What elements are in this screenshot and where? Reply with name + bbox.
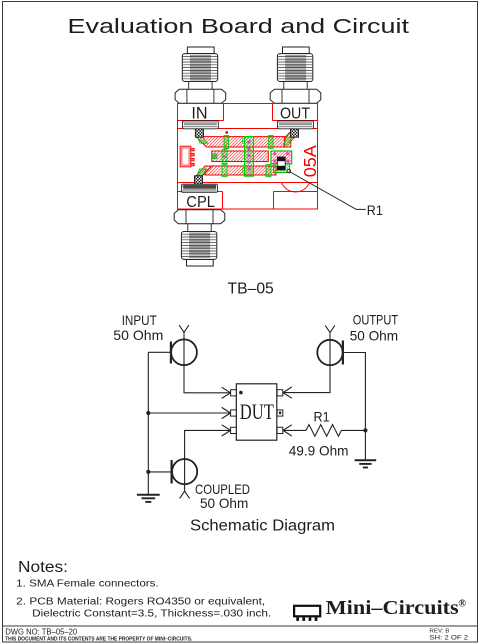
flange CPL — [182, 176, 218, 193]
wire trunk to COUPLED port — [148, 471, 171, 473]
value 49.9 Ohm — [289, 442, 349, 458]
wire R1 to right trunk — [341, 429, 365, 431]
label INPUT 50 Ohm — [113, 312, 163, 343]
via dots on middle trace — [213, 155, 226, 158]
svg-text:OUTPUT: OUTPUT — [353, 312, 399, 328]
junction node C — [363, 428, 367, 432]
footer DWG NO — [5, 626, 77, 636]
resistor R1 — [306, 425, 341, 437]
R1 pad area — [271, 151, 292, 173]
label IN — [191, 103, 207, 122]
svg-text:Notes:: Notes: — [18, 559, 68, 576]
trace middle (coupled line) — [212, 151, 268, 162]
svg-text:SH: 2 OF 2: SH: 2 OF 2 — [429, 634, 468, 641]
wire DUT pin 4 to R1 — [283, 429, 306, 431]
port INPUT connector symbol — [171, 325, 197, 365]
SMA connector J2 (OUT) body — [270, 47, 321, 103]
svg-text:50 Ohm: 50 Ohm — [350, 327, 398, 343]
trace bottom (CPL) — [196, 166, 276, 176]
svg-text:Mini–Circuits: Mini–Circuits — [326, 598, 459, 619]
arrow into DUT pin 6 — [283, 387, 292, 398]
arrow into DUT pin 1 — [222, 387, 231, 398]
label OUT — [280, 105, 310, 122]
notes heading — [18, 559, 68, 576]
svg-text:2. PCB Material: Rogers RO4350: 2. PCB Material: Rogers RO4350 or equiva… — [16, 597, 265, 608]
note 1 — [16, 579, 159, 590]
chip resistor R1 on board — [277, 157, 285, 170]
arrow into DUT pin 3 — [222, 425, 231, 436]
note 2 line 1 — [16, 597, 265, 608]
label OUTPUT 50 Ohm — [350, 312, 399, 344]
center ground column with vias — [243, 137, 254, 177]
footer property note — [5, 636, 192, 642]
svg-text:R1: R1 — [367, 202, 383, 218]
svg-text:49.9 Ohm: 49.9 Ohm — [289, 442, 349, 458]
PCB artwork traces — [180, 130, 320, 177]
wire COUPLED to DUT pin 3 — [185, 430, 231, 459]
label R1 (board) — [367, 202, 383, 218]
svg-text:05A: 05A — [300, 145, 320, 177]
svg-text:TB–05: TB–05 — [228, 281, 275, 298]
label COUPLED 50 Ohm — [195, 481, 250, 511]
svg-text:CPL: CPL — [186, 194, 215, 211]
svg-text:Schematic Diagram: Schematic Diagram — [190, 517, 335, 534]
note 2 line 2 — [32, 609, 271, 620]
Mini-Circuits logo — [294, 598, 466, 621]
svg-text:Dielectric Constant=3.5, Thick: Dielectric Constant=3.5, Thickness=.030 … — [32, 609, 271, 620]
edge connector bracket (left) — [180, 146, 194, 167]
svg-text:DUT: DUT — [240, 399, 274, 424]
footer separator line — [2, 625, 478, 627]
svg-text:THIS DOCUMENT AND ITS CONTENTS: THIS DOCUMENT AND ITS CONTENTS ARE THE P… — [5, 636, 192, 642]
ground (right) — [355, 460, 377, 467]
label R1 (schematic) — [314, 409, 330, 425]
svg-text:OUT: OUT — [280, 105, 310, 122]
DUT pin squares right — [277, 390, 283, 434]
caption Schematic Diagram — [190, 517, 335, 534]
wire INPUT to left trunk — [148, 351, 171, 353]
wire OUTPUT to DUT pin 6 — [283, 365, 330, 393]
arrow into DUT pin 4 — [283, 425, 292, 436]
trace top (IN to OUT) — [196, 130, 298, 147]
wire INPUT to DUT pin 1 — [184, 365, 231, 393]
silkscreen 05A — [300, 145, 320, 177]
SMA connector J3 (CPL) body — [174, 210, 225, 266]
DUT pin squares left — [231, 390, 237, 434]
wire left trunk vertical — [147, 352, 149, 494]
junction node B — [146, 470, 150, 474]
svg-text:INPUT: INPUT — [122, 312, 157, 328]
arrow into DUT pin 2 — [222, 407, 231, 418]
svg-text:Evaluation Board and Circuit: Evaluation Board and Circuit — [68, 16, 410, 38]
svg-text:50 Ohm: 50 Ohm — [200, 495, 248, 511]
board name TB-05 — [228, 281, 275, 298]
junction node A — [146, 411, 150, 415]
svg-text:50 Ohm: 50 Ohm — [113, 327, 163, 343]
label CPL — [186, 194, 215, 211]
port OUTPUT connector symbol — [317, 325, 343, 365]
footer sheet — [429, 634, 468, 641]
svg-text:R1: R1 — [314, 409, 330, 425]
footer REV — [429, 629, 449, 635]
title: Evaluation Board and Circuit — [68, 16, 410, 38]
svg-text:®: ® — [458, 598, 466, 609]
flange IN — [183, 121, 219, 138]
wire trunk to DUT pin 2 — [148, 412, 230, 414]
flange OUT — [278, 121, 314, 138]
svg-text:DWG NO: TB–05–20: DWG NO: TB–05–20 — [5, 626, 77, 636]
svg-text:IN: IN — [191, 103, 207, 122]
DUT U1 — [236, 384, 276, 440]
DUT pin 5 mark — [279, 412, 281, 415]
leader line to R1 — [287, 169, 366, 209]
wire OUTPUT to right trunk — [343, 353, 366, 460]
fiducial red dot — [225, 131, 228, 134]
SMA connector J1 (IN) body — [175, 47, 226, 103]
port COUPLED connector symbol — [172, 459, 198, 498]
ground (left) — [137, 495, 160, 502]
ground via pads (green) on traces — [197, 135, 292, 176]
red board outline — [178, 104, 318, 210]
svg-text:1. SMA Female connectors.: 1. SMA Female connectors. — [16, 579, 159, 590]
